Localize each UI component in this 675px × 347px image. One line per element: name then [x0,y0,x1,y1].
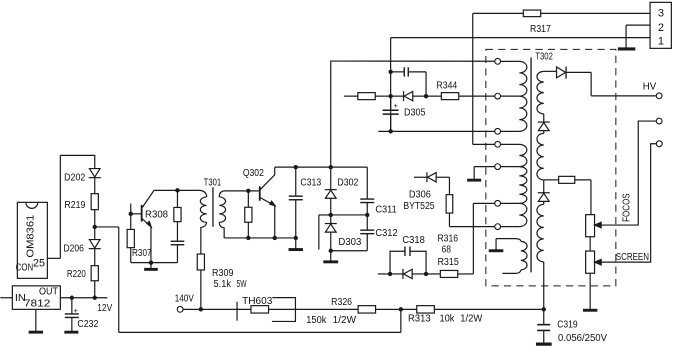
svg-text:C313: C313 [300,177,321,188]
node: D302 top [329,165,333,169]
node: D303 bottom [329,249,333,253]
svg-text:R313: R313 [408,313,431,324]
wire [94,281,96,298]
wire: pin1 drop [390,38,392,132]
svg-text:D206: D206 [63,244,84,255]
wire [330,198,332,215]
label R344 [437,80,458,91]
wire: pin5 to ground [474,166,495,168]
svg-text:3: 3 [658,7,664,19]
svg-text:T301: T301 [204,177,222,188]
svg-text:FOCOS: FOCOS [621,193,632,222]
resistor (unlabeled) [358,93,391,100]
ground: C232 [64,330,78,332]
T302 auxiliary winding [496,239,527,274]
svg-text:68: 68 [441,244,451,255]
wire: collector rail to T301 [154,189,200,191]
terminal pin5 of T302 [495,164,501,170]
label T302 [535,51,553,62]
transformer T302 core [530,57,532,272]
svg-text:Q302: Q302 [243,168,264,179]
T302 enclosure (dashed) [486,49,616,286]
transistor Q302 [260,167,275,238]
label HV [643,81,657,92]
terminal FOCUS [656,118,662,124]
label D306 [409,189,431,200]
resistor R316 [446,177,453,226]
potentiometer (FOCUS) [586,215,595,237]
label 140V [175,294,194,305]
svg-text:R316: R316 [437,233,458,244]
svg-text:R220: R220 [67,269,86,280]
terminal pin1 of T302 [495,58,501,64]
transformer T301 secondary [219,191,225,238]
T302 primary winding lower [501,144,527,226]
svg-text:R315: R315 [437,257,459,268]
label R309 [212,268,234,279]
capacitor (over D305) [391,67,426,96]
wire: secondary bottom to C319 node [543,262,545,310]
wire: base [131,213,142,215]
resistor (snubber) [174,190,181,221]
capacitor C232 (polarized) [65,298,79,331]
resistor R307 [127,214,134,263]
ground: D303 [323,251,338,262]
svg-text:1/2W: 1/2W [333,315,357,326]
node [424,272,428,276]
ground: T302 pin5 [467,167,481,181]
wire [543,180,545,193]
capacitor C319 [537,309,550,342]
label C232 [77,319,98,330]
svg-text:OUT: OUT [39,286,58,297]
label C313 [300,177,321,188]
svg-text:R326: R326 [331,297,352,308]
terminal 140V input [177,306,183,312]
ground: emitter [144,263,158,270]
label R220 [67,269,86,280]
label R317 [530,24,551,35]
wire: stub [344,95,358,97]
wire: T301 to Q302 base [224,190,260,192]
wire: junction to bottom rail [95,227,401,332]
wire: to focus pot [575,180,591,215]
wire: bottom link [131,262,178,264]
wire: connector pin1 line [391,37,650,39]
terminal pin3 of T302 [495,128,501,134]
node: between C311 and C312 [365,213,369,217]
svg-text:C232: C232 [77,319,98,330]
svg-text:T302: T302 [535,51,553,62]
node: base junction [246,189,250,193]
diode D206 [89,240,101,249]
node: snubber top [175,188,179,192]
diode D303 [325,215,337,232]
svg-text:D305: D305 [404,107,426,118]
svg-text:R219: R219 [64,200,85,211]
diode D305 [391,91,426,101]
node [424,94,428,98]
svg-text:7812: 7812 [24,298,51,309]
node: C313 top [294,165,298,169]
wire: SCREEN arm [595,144,657,265]
wire: to HV terminal [566,72,656,96]
ground: 7812 [29,309,43,332]
svg-text:R308: R308 [145,209,168,220]
resistor R326 [358,306,375,313]
label 10k 1/2W [439,313,482,324]
wire: FOCUS arm [595,121,657,228]
svg-text:10k: 10k [439,313,455,324]
node: emitter/ground [149,260,153,264]
node: C319 top [542,307,546,311]
label 68 [441,244,451,255]
wire: pot link [589,237,591,251]
diode (secondary 2) [538,122,550,131]
terminal pin6 of T302 [495,200,501,206]
ground: C319 [536,343,552,346]
svg-text:TH603: TH603 [242,296,273,307]
transistor R308 (driver) [142,191,154,227]
terminal pin7 of T302 [495,224,501,230]
node [388,272,392,276]
ground: aux winding [489,239,504,251]
ground: screen pot [583,273,597,310]
node: junction R219/D206 [93,225,97,229]
resistor R219 [91,194,98,210]
resistor (focus feed) [559,176,575,183]
wire: 140V rail [183,308,544,310]
label R326 [331,297,352,308]
label D305 [404,107,426,118]
regulator U2 7812 [12,286,60,310]
label T301 [204,177,222,188]
transformer T301 core [212,187,214,227]
label R313 [408,313,431,324]
wire: R317 drop to circle4 [473,13,495,144]
node: C313 bottom / rail end [294,236,298,240]
label C319 [557,319,578,330]
wire: pin2 to ground [626,25,650,47]
wire: to T302 pin (circle1) [331,60,495,62]
diode D306 BYT525 [414,172,450,182]
svg-text:150k: 150k [306,315,327,326]
wire [94,249,96,266]
wire: corner to C311 [366,167,369,199]
resistor R315 [426,270,473,277]
resistor R313 [417,306,435,313]
wire [94,178,96,194]
wire: emitter down [150,227,152,263]
wire: pin6 drop to R315 [472,203,474,274]
resistor R344 [426,93,495,100]
svg-text:5.1k: 5.1k [214,279,232,290]
T302 secondary winding 1 [537,71,557,114]
resistor R317 [523,10,540,17]
label 0.056/250V [558,333,607,344]
svg-text:+: + [394,101,399,110]
label D303 [338,237,361,248]
node: emitter on rail [273,236,277,240]
terminal SCREEN [656,141,662,147]
terminal pin4 of T302 [495,141,501,147]
ground: pin2 [618,47,636,50]
svg-text:R317: R317 [530,24,551,35]
transformer T301 primary [200,190,207,254]
wire: stub left of D303 [319,215,331,250]
label BYT525 [403,201,435,212]
resistor (base bias) [245,191,252,238]
wire [543,201,545,204]
svg-text:BYT525: BYT525 [403,201,435,212]
terminal HV [656,93,662,99]
wire: 7812 OUT 12V line [60,297,107,299]
ground: Q302 emitter rail [289,238,303,250]
wire: emitter rail [224,237,296,239]
svg-text:CON: CON [16,262,33,273]
diode (HV rectifier top) [557,67,567,79]
wire: vertical from primary top line [330,61,332,168]
label D206 [63,244,84,255]
svg-text:C319: C319 [557,319,578,330]
wire: mid link to C311/C312 [331,214,368,216]
svg-text:C312: C312 [375,228,398,239]
wire [543,131,545,134]
svg-text:0.056/250V: 0.056/250V [558,333,607,344]
label D202 [64,172,86,183]
resistor R220 [91,266,98,281]
label 150k 1/2W [306,315,356,326]
node: base resistor bottom [246,236,250,240]
wire: collector rail [275,166,368,168]
wire [330,232,332,251]
svg-text:1: 1 [658,35,664,47]
svg-text:25: 25 [33,257,45,269]
wire: R317 line [473,12,650,14]
wire: bottom link [331,250,368,252]
label D302 [337,177,358,188]
label SCREEN [616,252,649,263]
wire: pin7 to R316 [449,226,494,228]
diode (secondary 3) [538,193,550,202]
wire: to T302 pin (circle3) [378,130,495,132]
node: modulator mid [329,213,333,217]
capacitor (snubber) [171,222,185,263]
T302 secondary winding 3 [537,204,544,262]
svg-text:D202: D202 [64,172,86,183]
svg-text:R309: R309 [212,268,234,279]
label R219 [64,200,85,211]
svg-text:D306: D306 [409,189,431,200]
svg-text:R307: R307 [132,248,152,259]
label R315 [437,257,459,268]
svg-text:OM8361: OM8361 [25,214,36,257]
svg-text:1/2W: 1/2W [460,313,483,324]
diode D302 [325,167,337,198]
terminal pin2 of T302 [495,93,501,99]
capacitor C313 [289,167,303,238]
wire [543,114,545,122]
wire: TH603 bracket [272,298,296,322]
node: C232 top [70,296,74,300]
wire: focus tap [544,179,559,181]
node: R308 base [129,212,133,216]
T302 secondary winding 2 [537,133,544,180]
label C311 [375,204,397,215]
svg-text:HV: HV [643,81,657,92]
connector J1 (pins 3,2,1) [650,2,671,48]
node [388,129,392,133]
diode D202 [89,169,101,178]
node [388,94,392,98]
label R316 [437,233,458,244]
wire: base stub [130,204,132,214]
wire [94,210,96,227]
svg-text:C318: C318 [402,235,425,246]
IC U1 OM8361 (CON pin 25) [16,202,48,278]
svg-text:+: + [74,306,79,315]
wire: pin6 line [473,202,494,204]
svg-text:SCREEN: SCREEN [616,252,649,263]
svg-text:R344: R344 [437,80,458,91]
svg-text:D303: D303 [338,237,361,248]
label C318 [402,235,425,246]
capacitor C312 [360,230,374,251]
wire: chain top drop [94,155,96,169]
svg-text:D302: D302 [337,177,358,188]
wire: IC pin25 to diode chain top [47,155,95,258]
label 12V [97,303,112,314]
label Q302 [243,168,264,179]
potentiometer (SCREEN) [586,251,595,273]
resistor R309 [197,254,204,309]
capacitor (polarized, below D305) [383,96,399,131]
svg-text:140V: 140V [175,294,194,305]
node: R326/R313 junction [399,307,403,311]
node: chain bottom on 12V line [93,296,97,300]
node: R309 bottom [199,307,203,311]
svg-text:2: 2 [658,22,664,34]
label C312 [375,228,398,239]
diode (with C318) [390,269,426,279]
label FOCOS [621,193,632,222]
wire: 7812 IN [0,297,12,299]
wire [94,227,96,240]
wire: C318 stub [378,273,390,275]
svg-text:12V: 12V [97,303,112,314]
label R308 [145,209,168,220]
thermistor TH603 [237,302,269,321]
svg-text:5W: 5W [237,279,247,290]
label TH603 [242,296,273,307]
label R307 [132,248,152,259]
T302 primary winding upper [501,61,527,131]
node [388,70,392,74]
capacitor C311 [360,199,374,230]
capacitor C318 [390,247,426,274]
svg-text:C311: C311 [375,204,397,215]
label 5.1k 5W [214,279,247,290]
